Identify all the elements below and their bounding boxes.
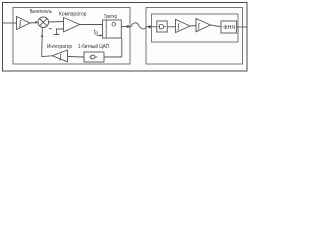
feedback integrator triangle (points left) <box>52 50 67 62</box>
junction dot at modulator output <box>126 25 129 28</box>
svg-text:∫: ∫ <box>177 24 181 31</box>
trigger output wire <box>121 26 131 28</box>
demodulator amplifier triangle <box>196 19 210 32</box>
minus sign at feedback input <box>49 28 52 30</box>
wire amp to LPF <box>210 25 221 27</box>
demodulator outer box <box>146 8 243 65</box>
wire subtractor to comparator <box>49 21 64 24</box>
outer frame <box>3 3 248 72</box>
demodulator inner box <box>152 14 239 42</box>
input wire <box>3 22 17 24</box>
trigger inner divider <box>105 20 107 38</box>
modulator box <box>13 8 130 65</box>
wire integrator to amp <box>190 25 196 28</box>
junction dot at demodulator input <box>148 25 151 28</box>
trigger state circle <box>112 22 116 26</box>
svg-text:Интегратор: Интегратор <box>47 44 72 50</box>
wire comparator to trigger <box>80 24 103 26</box>
pulse former box <box>157 21 167 32</box>
wire DAC to feedback integrator <box>68 56 85 59</box>
amplifier U1 (input) <box>17 17 30 30</box>
arrowhead up into subtractor <box>41 34 44 37</box>
wire former to integrator <box>167 26 175 28</box>
comparator triangle <box>64 18 80 32</box>
bitstream wave symbol <box>131 23 147 29</box>
arrowhead into subtractor <box>35 21 38 24</box>
svg-text:∫: ∫ <box>197 23 201 30</box>
LPF box <box>221 21 237 33</box>
ground bar <box>54 34 60 36</box>
svg-text:fд: fд <box>94 29 99 35</box>
trigger box <box>103 20 122 38</box>
clock arrow <box>97 34 101 36</box>
reference wire to comparator lower input <box>57 29 64 34</box>
DAC symbol (D-shape) <box>89 56 91 58</box>
output wire <box>237 26 247 28</box>
svg-text:ФНЧ: ФНЧ <box>223 25 235 31</box>
feedback bottom wire right <box>104 56 122 58</box>
svg-text:∫: ∫ <box>18 18 22 27</box>
svg-text:Вычитатель: Вычитатель <box>30 9 52 15</box>
1-bit DAC box <box>84 52 104 62</box>
svg-text:1-битный ЦАП: 1-битный ЦАП <box>78 43 109 50</box>
feedback rise to subtractor <box>41 28 44 57</box>
wire amp to subtractor <box>30 21 38 24</box>
pulse former symbol (D-shape) <box>158 26 160 28</box>
wire into demodulator <box>147 26 157 28</box>
demodulator integrator triangle <box>176 20 191 33</box>
wire integrator to corner <box>42 55 53 58</box>
subtractor (circle with X) <box>38 17 49 28</box>
svg-text:Триггер: Триггер <box>104 14 117 20</box>
feedback drop from trigger <box>121 38 123 57</box>
svg-text:Компаратор: Компаратор <box>59 11 87 17</box>
